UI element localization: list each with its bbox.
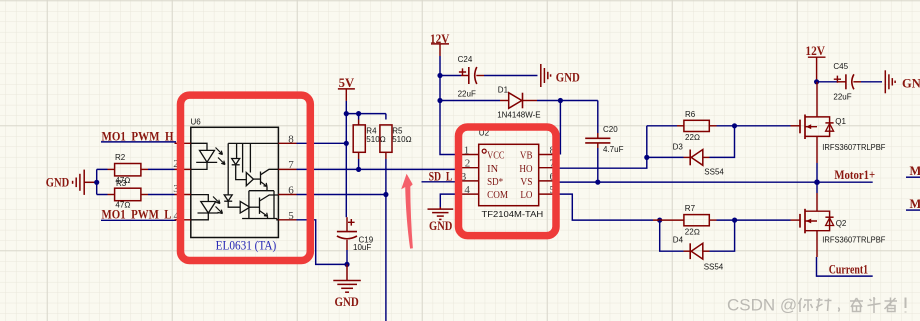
svg-text:4.7uF: 4.7uF bbox=[603, 145, 624, 154]
junction R4 top bbox=[356, 111, 361, 116]
wire 12V rail to U2 VCC bbox=[440, 56, 461, 155]
svg-text:D1: D1 bbox=[498, 85, 509, 94]
junction 5V/R4 feed bbox=[344, 111, 349, 116]
diode D3 SS54 bbox=[673, 142, 725, 176]
watermark CSDN bbox=[727, 296, 906, 315]
svg-text:R2: R2 bbox=[115, 153, 126, 162]
wire 5V rail down to C19 bbox=[345, 101, 347, 217]
wire R3 to opto pin3 bbox=[148, 194, 175, 196]
pin 6 stub bbox=[278, 194, 296, 196]
svg-text:47Ω: 47Ω bbox=[115, 201, 130, 210]
capacitor C45 22uF bbox=[817, 62, 861, 102]
svg-text:LO: LO bbox=[520, 189, 532, 201]
svg-text:5: 5 bbox=[288, 210, 294, 222]
svg-text:VB: VB bbox=[520, 150, 533, 162]
pin 4 stub bbox=[175, 219, 191, 221]
svg-text:Motor1+: Motor1+ bbox=[834, 168, 875, 182]
power port 12V right bbox=[805, 44, 825, 82]
wire opto pin7 to U2 IN bbox=[297, 168, 462, 170]
junction R4/pin7 bbox=[356, 167, 361, 172]
svg-text:7: 7 bbox=[288, 159, 294, 171]
svg-text:GND: GND bbox=[46, 176, 69, 190]
resistor R3 47R bbox=[108, 179, 149, 209]
junction C19 bottom bbox=[344, 262, 349, 267]
drain pin bbox=[816, 193, 818, 211]
photodiode 2 bbox=[224, 195, 232, 201]
wire C45 to GND bbox=[861, 81, 882, 83]
svg-text:SS54: SS54 bbox=[704, 263, 724, 272]
annotation pink arrow bbox=[401, 174, 413, 249]
svg-text:R6: R6 bbox=[685, 110, 696, 119]
svg-text:22uF: 22uF bbox=[458, 89, 476, 98]
source pin bbox=[816, 231, 818, 257]
capacitor C19 10uF bbox=[337, 217, 374, 252]
capacitor C20 4.7uF bbox=[585, 125, 623, 154]
svg-text:SS54: SS54 bbox=[704, 168, 724, 177]
junction D1/VB bbox=[558, 98, 563, 103]
wire R7 right to gate node bbox=[717, 219, 735, 221]
pin 1 stub bbox=[175, 142, 191, 144]
svg-text:1: 1 bbox=[464, 144, 470, 156]
diode D4 SS54 bbox=[673, 236, 724, 272]
svg-text:1N4148W-E: 1N4148W-E bbox=[497, 110, 540, 119]
junction C24 tap bbox=[437, 73, 442, 78]
junction R6/D3 right bbox=[732, 123, 737, 128]
wire R4 bottom to pin7 row bbox=[358, 159, 360, 169]
svg-text:D3: D3 bbox=[673, 142, 684, 151]
svg-text:HO: HO bbox=[519, 163, 532, 175]
svg-text:Q1: Q1 bbox=[835, 117, 846, 126]
svg-text:VCC: VCC bbox=[487, 150, 504, 162]
wire gate Q1 bbox=[735, 125, 791, 127]
wire HO to R6 bbox=[647, 125, 677, 127]
junction D3 tap bbox=[644, 155, 649, 160]
wire opto pin6 run bbox=[297, 194, 386, 196]
wire VB riser bbox=[559, 101, 561, 155]
svg-text:M: M bbox=[910, 164, 920, 178]
drain pin bbox=[816, 82, 818, 117]
svg-text:VS: VS bbox=[520, 176, 532, 188]
wire D4 branch bbox=[660, 220, 735, 251]
ground below C19 bbox=[333, 264, 361, 292]
LED channel 1 bbox=[191, 143, 225, 169]
svg-text:2: 2 bbox=[465, 158, 471, 170]
net label SD_L bbox=[422, 169, 462, 183]
junction C20/VS bbox=[595, 180, 600, 185]
svg-text:22uF: 22uF bbox=[833, 93, 851, 102]
svg-text:COM: COM bbox=[487, 189, 508, 201]
svg-text:GND: GND bbox=[429, 219, 452, 233]
junction R7 left bbox=[657, 218, 662, 223]
resistor R7 22R bbox=[653, 204, 717, 236]
svg-text:22Ω: 22Ω bbox=[685, 228, 700, 237]
wire C24 to GND bbox=[484, 75, 538, 77]
junction D1 tap bbox=[437, 98, 442, 103]
wire pin6 net down offscreen bbox=[385, 195, 387, 321]
detector internals bbox=[224, 143, 278, 219]
pin 5 stub bbox=[278, 219, 296, 221]
svg-text:6: 6 bbox=[288, 184, 294, 196]
svg-text:D4: D4 bbox=[673, 236, 684, 245]
svg-text:22Ω: 22Ω bbox=[685, 133, 700, 142]
svg-text:8: 8 bbox=[288, 133, 294, 145]
body diode bbox=[817, 211, 830, 231]
power ground right of C24 bbox=[541, 64, 580, 87]
resistor R5 510R bbox=[380, 125, 412, 159]
wire R2 to opto pin2 bbox=[148, 168, 175, 170]
power port GND left bbox=[46, 170, 97, 195]
svg-text:C24: C24 bbox=[458, 55, 473, 64]
pin 8 stub bbox=[278, 142, 296, 144]
amp 1 bbox=[246, 173, 253, 186]
wire R4/R5 top feed bbox=[346, 114, 386, 120]
photodiode 1 bbox=[232, 159, 240, 165]
svg-text:C45: C45 bbox=[833, 62, 848, 71]
source pin bbox=[816, 136, 818, 163]
svg-text:Current1: Current1 bbox=[829, 263, 868, 277]
svg-text:GND: GND bbox=[902, 77, 920, 91]
wire D3 branch bbox=[647, 126, 735, 158]
pin stubs right bbox=[539, 155, 557, 195]
svg-text:R3: R3 bbox=[116, 179, 127, 188]
junction 12V/C45 bbox=[814, 79, 819, 84]
wire VS / Motor1+ row bbox=[557, 181, 873, 183]
svg-text:IN: IN bbox=[487, 163, 498, 175]
svg-text:EL0631 (TA): EL0631 (TA) bbox=[216, 238, 277, 253]
wire D1 cathode to VB node bbox=[537, 100, 598, 102]
svg-text:GND: GND bbox=[556, 71, 580, 85]
svg-text:Q2: Q2 bbox=[836, 219, 847, 228]
body diode bbox=[817, 117, 830, 136]
net label MO1_PWM_H bbox=[101, 130, 183, 144]
junction pin8/5V rail bbox=[344, 141, 349, 146]
wire gate Q2 bbox=[735, 219, 791, 221]
wire U2 COM to ground bbox=[440, 194, 461, 207]
svg-text:5V: 5V bbox=[339, 76, 355, 90]
wire opto pin8 to 5V rail bbox=[297, 142, 347, 144]
svg-text:510Ω: 510Ω bbox=[392, 135, 412, 144]
svg-text:C20: C20 bbox=[603, 125, 618, 134]
svg-text:R7: R7 bbox=[685, 204, 696, 213]
wire C19 bottom bbox=[346, 250, 348, 264]
svg-text:10uF: 10uF bbox=[353, 243, 371, 252]
junction pin6/R5 bbox=[383, 192, 388, 197]
wire R6 right to gate node bbox=[717, 125, 735, 127]
capacitor C24 22uF bbox=[440, 55, 484, 98]
LED channel 2 bbox=[191, 195, 223, 220]
pin stubs left bbox=[461, 155, 479, 195]
transistor Q1 IRFS3607TRLPBF bbox=[791, 82, 886, 163]
svg-text:CSDN @: CSDN @ bbox=[727, 296, 797, 315]
svg-text:SD*: SD* bbox=[487, 176, 503, 188]
annotation red box around U2 bbox=[459, 127, 557, 236]
resistor R2 47R bbox=[108, 153, 149, 185]
wire Q1 source to Motor1+ bbox=[816, 163, 818, 182]
svg-text:TF2104M-TAH: TF2104M-TAH bbox=[482, 210, 544, 219]
wire Q2 drain bbox=[816, 182, 818, 193]
svg-text:IRFS3607TRLPBF: IRFS3607TRLPBF bbox=[822, 236, 885, 245]
svg-text:M: M bbox=[910, 197, 920, 211]
diode D1 1N4148W-E bbox=[497, 85, 540, 119]
wire HO to R6/D3 bbox=[557, 126, 647, 168]
svg-text:IRFS3607TRLPBF: IRFS3607TRLPBF bbox=[822, 143, 885, 152]
junction Motor1+ bbox=[814, 179, 820, 185]
IC U2 TF2104M-TAH bbox=[461, 128, 557, 219]
power port 5V bbox=[338, 76, 355, 101]
wire R5 bottom to pin6 row bbox=[385, 159, 387, 195]
power ground right of C45 bbox=[885, 70, 920, 93]
op-amp U6 optocoupler EL0631 bbox=[173, 118, 296, 253]
net label M (cut) lower bbox=[906, 197, 920, 211]
wire Q2 source to Current1 bbox=[817, 257, 873, 276]
svg-text:4: 4 bbox=[464, 184, 470, 196]
svg-text:GND: GND bbox=[335, 295, 359, 309]
transistor 1 bbox=[260, 172, 262, 185]
resistor R6 22R bbox=[677, 110, 717, 142]
power port 12V mid bbox=[430, 32, 449, 56]
wire C20 top bbox=[597, 101, 599, 134]
wire opto pin5 to C19 bottom bbox=[297, 220, 348, 265]
amp 2 bbox=[240, 201, 250, 213]
net label M (cut) upper bbox=[906, 164, 920, 178]
junction R7/D4 right bbox=[732, 218, 737, 223]
annotation red box around U6 bbox=[181, 95, 311, 260]
wire LO to R7/D4 bbox=[557, 194, 654, 220]
svg-text:U6: U6 bbox=[191, 118, 202, 127]
net label MO1_PWM_L bbox=[101, 208, 180, 222]
pin 3 stub bbox=[175, 194, 191, 196]
svg-text:510Ω: 510Ω bbox=[366, 135, 386, 144]
wire 12V to D1 bbox=[440, 100, 500, 102]
resistor R4 510R bbox=[353, 120, 386, 160]
ground below U2 bbox=[428, 207, 454, 233]
svg-text:12V: 12V bbox=[805, 44, 825, 58]
transistor 2 bbox=[259, 198, 261, 214]
pin 7 stub bbox=[278, 168, 296, 170]
pin 2 stub bbox=[175, 168, 191, 170]
junction GND node bbox=[94, 180, 99, 185]
wire C20 bottom to VS row bbox=[597, 148, 599, 182]
wire GND to R2/R3 bbox=[94, 169, 107, 194]
transistor Q2 IRFS3607TRLPBF bbox=[791, 193, 886, 257]
